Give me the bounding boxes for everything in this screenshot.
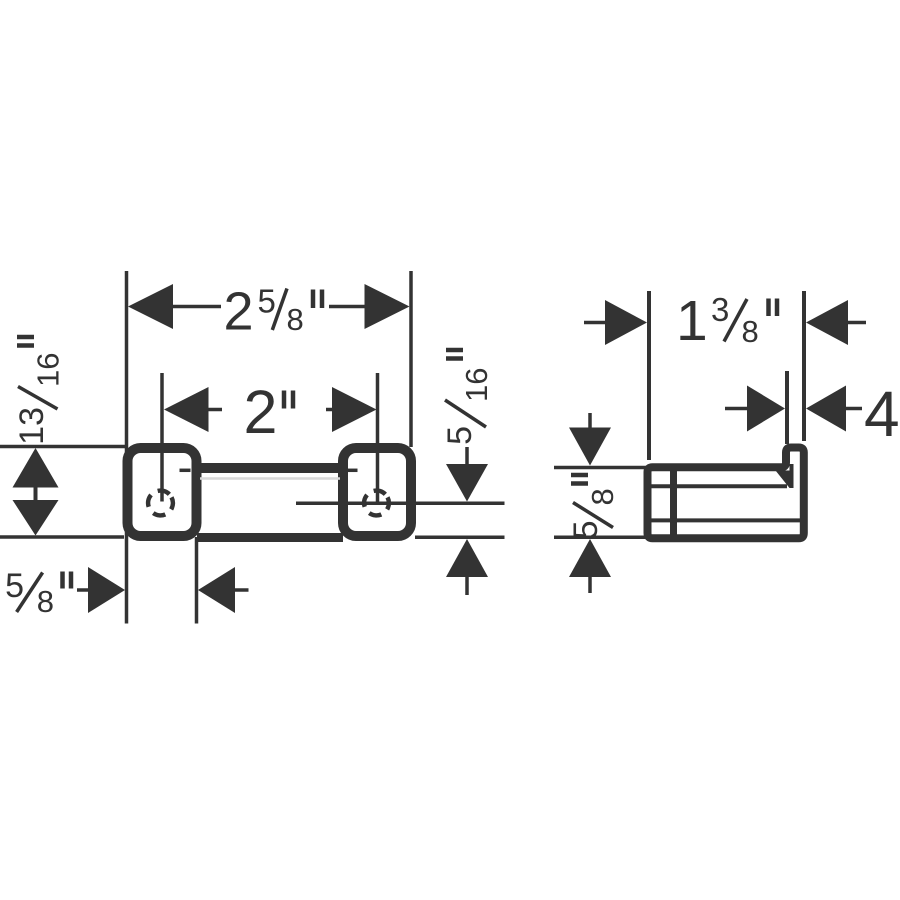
hook profile outline (side view) [648,448,804,539]
svg-text:2: 2 [224,282,254,342]
arrowhead right of 2-5/8 dim [365,284,410,329]
svg-text:8: 8 [37,584,54,619]
hidden bar edge stub in left post [180,469,191,473]
arrowhead pointing right (5/8 bottom) [88,567,125,613]
svg-text:5: 5 [567,521,605,540]
svg-text:16: 16 [31,353,66,387]
dimension line tail left (2in) [206,408,222,412]
extension line D (right, 2in dim, x=377.5) [376,373,380,502]
extension line E (left, 1-3/8 dim, x=649) [647,291,651,460]
arrowhead right of 2in dim [332,387,377,432]
dimension line tail right (2in) [326,408,340,412]
svg-text:8: 8 [742,314,759,349]
arrowhead down of 13/16 dim [13,500,59,536]
arrowhead left of 2in dim [164,387,209,432]
bar bottom edge between posts [197,533,343,542]
extension line B (right, 2-5/8 dim, x=411) [409,271,413,447]
svg-text:2: 2 [244,378,278,446]
hook lip inner wall [790,464,794,488]
dimension tail left (4mm) [725,407,749,411]
leader line bottom of 13/16 dim (y=537) [0,535,124,539]
dimension text 1-3/8 inch: fraction slash [724,299,747,342]
faint hidden edge of bar [200,477,340,480]
right wall post (rounded square) [343,448,411,536]
dimension line tail right (2-5/8) [329,305,366,309]
svg-text:8: 8 [287,302,304,337]
arrowhead down of 5/16 dim [446,464,488,502]
svg-text:13: 13 [13,407,51,445]
dimension text 2 inch: inch marks [282,391,287,409]
dimension text 5/8 inch (bottom left): inch marks [60,572,65,589]
left wall post (rounded square) [128,448,197,536]
dashed screw hole circle, right post [360,486,393,519]
extension line F (right, 1-3/8 and 4mm dims, x=804) [802,291,806,441]
leader stub below 5/16 arrow [465,577,469,595]
svg-text:5: 5 [5,567,24,605]
svg-text:8: 8 [585,488,620,505]
hidden bar edge stub in right post [347,469,358,473]
arrowhead pointing left (4mm) [806,386,846,432]
chamfer wedge at hook lip [776,471,790,489]
dimension tail left (1-3/8) [584,321,607,325]
svg-text:1: 1 [676,289,708,353]
dimension tail left (5/8 bottom) [77,588,91,592]
arrowhead down of 5/8 right dim [569,428,611,466]
arrowhead up of 5/8 right dim [569,539,611,577]
hole center line of right post [296,502,505,506]
svg-text:3: 3 [711,291,729,328]
wall plate separator line [670,470,677,536]
leader stub below 5/8 right arrow [588,577,592,593]
svg-text:4: 4 [864,378,900,450]
baseline segment right of posts (5/16 dim) [415,536,505,540]
inner top surface line [652,484,788,488]
dimension text 2-5/8 inch: fraction slash [272,289,287,331]
svg-text:5: 5 [258,283,276,320]
arrowhead pointing right (4mm) [747,386,785,432]
dimension text 13/16 inch (rotated) [13,337,66,445]
svg-text:5: 5 [441,426,479,445]
dashed screw hole circle, left post [144,486,177,519]
arrowhead up of 13/16 dim [13,448,59,488]
arrowhead left of 2-5/8 dim [128,284,173,329]
dimension text 2-5/8 inch: inch marks [311,290,316,309]
extension line right of 5/8 bottom dim (x=196.5) [195,537,199,624]
dimension tail right (1-3/8) [846,321,866,325]
arrowhead pointing right (1-3/8) [605,300,647,345]
leader line bottom of 5/8 right dim (y=537.3) [554,536,648,540]
leader stub above 5/8 right arrow [588,413,592,429]
dimension text 5/16 inch (rotated) [441,350,494,445]
leader stub above 5/16 arrow [465,447,469,464]
arrowhead up of 5/16 dim [446,539,488,577]
extension line C (left, 2in dim, x=162) [160,373,164,502]
inner bottom surface line [652,518,801,522]
leader line top of 5/8 right dim (y=467.5) [554,466,650,470]
arrowhead pointing left (1-3/8) [806,300,848,345]
bar top edge between posts [197,463,343,473]
arrowhead pointing left (5/8 bottom) [198,567,235,613]
extension line A (left, 2-5/8 dim, x=126.5) [125,271,129,624]
dimension line tail left (2-5/8) [171,305,221,309]
dimension text 5/8 inch (right, rotated) [567,475,620,539]
dimension line stub (13/16) [34,485,38,502]
leader line top of 13/16 dim (y=446.5) [0,445,125,449]
dimension text 1-3/8 inch: inch marks [766,299,771,317]
extension line G (left of 4mm dim, x=787) [785,371,789,444]
svg-text:16: 16 [459,368,494,402]
dimension tail right (4mm) [845,407,862,411]
dimension text 5/8 inch (bottom left): fraction slash [17,573,43,613]
dimension tail right (5/8 bottom) [233,588,249,592]
